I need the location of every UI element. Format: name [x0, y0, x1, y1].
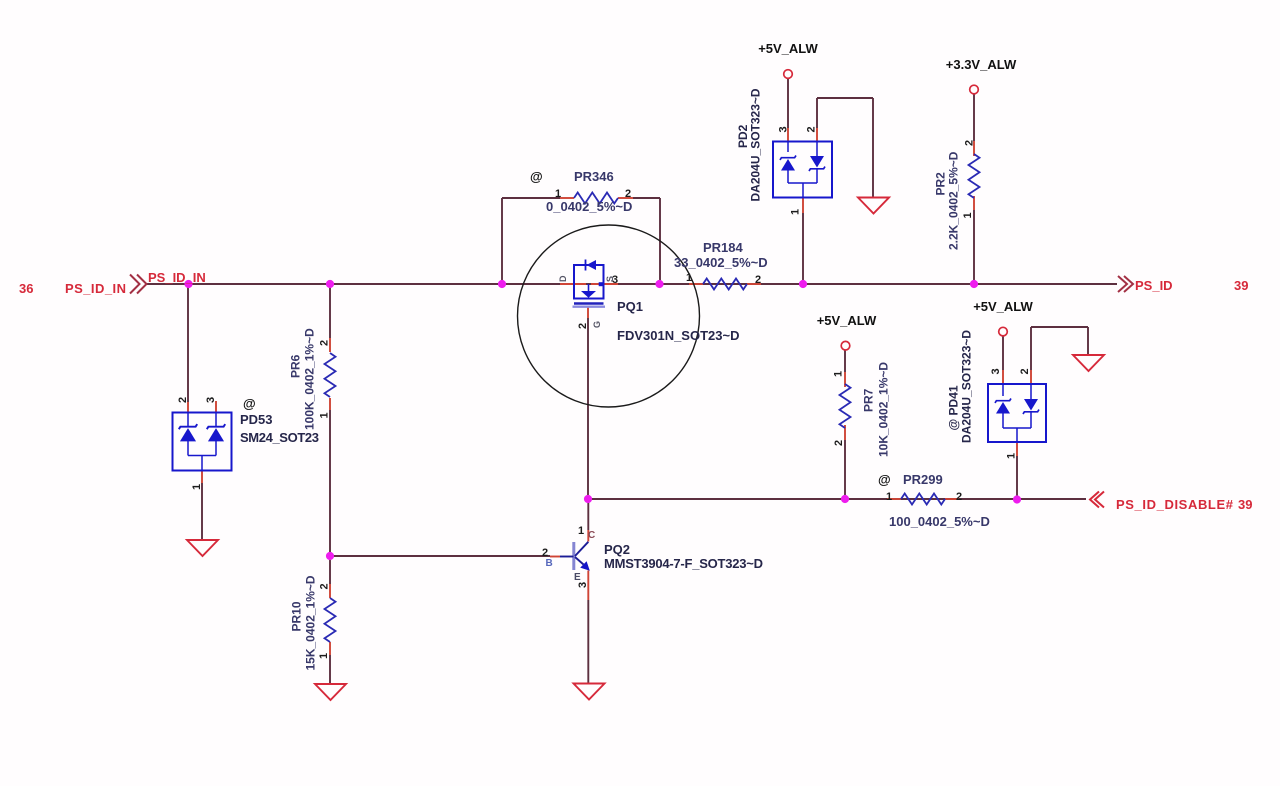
svg-text:3: 3: [205, 397, 217, 403]
svg-text:+3.3V_ALW: +3.3V_ALW: [946, 57, 1017, 72]
svg-text:3: 3: [612, 274, 618, 286]
svg-text:1: 1: [319, 412, 331, 418]
svg-text:2: 2: [177, 397, 189, 403]
svg-text:PR10: PR10: [290, 601, 304, 631]
svg-text:DA204U_SOT323~D: DA204U_SOT323~D: [960, 330, 974, 443]
svg-text:1: 1: [886, 491, 892, 503]
svg-text:2: 2: [319, 340, 331, 346]
svg-text:PS_ID_IN: PS_ID_IN: [148, 270, 206, 285]
svg-text:1: 1: [191, 484, 203, 490]
svg-text:PR299: PR299: [903, 472, 943, 487]
svg-text:PD53: PD53: [240, 412, 273, 427]
svg-text:2: 2: [806, 126, 818, 132]
svg-text:2: 2: [833, 440, 845, 446]
svg-text:+5V_ALW: +5V_ALW: [758, 41, 818, 56]
svg-text:PR346: PR346: [574, 169, 614, 184]
svg-text:PQ1: PQ1: [617, 299, 643, 314]
svg-text:PQ2: PQ2: [604, 542, 630, 557]
svg-text:@: @: [530, 169, 543, 184]
svg-text:39: 39: [1234, 278, 1248, 293]
svg-text:15K_0402_1%~D: 15K_0402_1%~D: [304, 575, 318, 670]
svg-text:PR2: PR2: [934, 172, 948, 196]
svg-text:2.2K_0402_5%~D: 2.2K_0402_5%~D: [947, 151, 961, 250]
svg-text:DA204U_SOT323~D: DA204U_SOT323~D: [749, 88, 763, 201]
svg-text:+5V_ALW: +5V_ALW: [817, 313, 877, 328]
svg-text:PR7: PR7: [862, 388, 876, 412]
svg-text:SM24_SOT23: SM24_SOT23: [240, 430, 319, 445]
svg-text:PS_ID_DISABLE#: PS_ID_DISABLE#: [1116, 497, 1234, 512]
svg-text:C: C: [588, 530, 595, 541]
svg-text:1: 1: [686, 272, 692, 284]
svg-text:10K_0402_1%~D: 10K_0402_1%~D: [877, 362, 891, 457]
svg-text:2: 2: [319, 583, 331, 589]
svg-text:1: 1: [790, 209, 802, 215]
svg-text:D: D: [558, 275, 568, 282]
svg-text:@: @: [878, 472, 891, 487]
svg-text:39: 39: [1238, 497, 1252, 512]
svg-text:2: 2: [577, 323, 589, 329]
svg-text:G: G: [592, 321, 602, 328]
svg-text:@: @: [243, 396, 256, 411]
svg-text:100K_0402_1%~D: 100K_0402_1%~D: [303, 328, 317, 430]
svg-text:@ PD41: @ PD41: [947, 385, 961, 430]
svg-text:3: 3: [990, 368, 1002, 374]
svg-text:3: 3: [577, 582, 589, 588]
svg-text:PR184: PR184: [703, 240, 744, 255]
svg-text:33_0402_5%~D: 33_0402_5%~D: [674, 255, 768, 270]
svg-text:PR6: PR6: [289, 354, 303, 378]
svg-text:E: E: [574, 572, 581, 583]
svg-text:1: 1: [962, 212, 974, 218]
svg-text:2: 2: [956, 491, 962, 503]
svg-text:B: B: [546, 558, 553, 569]
svg-text:2: 2: [625, 188, 631, 200]
svg-text:1: 1: [318, 653, 330, 659]
svg-text:2: 2: [1019, 368, 1031, 374]
svg-text:2: 2: [964, 140, 976, 146]
svg-text:1: 1: [833, 371, 845, 377]
svg-text:PS_ID: PS_ID: [1135, 278, 1173, 293]
svg-text:3: 3: [778, 126, 790, 132]
svg-text:2: 2: [755, 274, 761, 286]
svg-text:1: 1: [1006, 453, 1018, 459]
svg-text:1: 1: [555, 188, 561, 200]
svg-text:FDV301N_SOT23~D: FDV301N_SOT23~D: [617, 328, 739, 343]
svg-text:MMST3904-7-F_SOT323~D: MMST3904-7-F_SOT323~D: [604, 556, 763, 571]
svg-text:PS_ID_IN: PS_ID_IN: [65, 281, 126, 296]
svg-text:0_0402_5%~D: 0_0402_5%~D: [546, 199, 632, 214]
svg-text:1: 1: [578, 525, 584, 537]
svg-text:36: 36: [19, 281, 33, 296]
svg-text:100_0402_5%~D: 100_0402_5%~D: [889, 514, 990, 529]
svg-text:+5V_ALW: +5V_ALW: [973, 299, 1033, 314]
